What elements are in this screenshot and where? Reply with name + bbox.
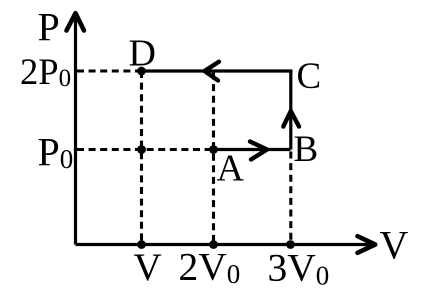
svg-text:2V0: 2V0 [179, 245, 241, 290]
svg-text:3V0: 3V0 [268, 246, 330, 291]
dashed line 2V0 vertical [212, 73, 215, 244]
process line C to D [142, 69, 293, 72]
arrow on CD pointing left [205, 62, 220, 81]
arrow on BC pointing up [283, 111, 299, 127]
svg-text:C: C [297, 56, 322, 97]
svg-text:P: P [38, 5, 60, 50]
tick dot 2V0 [209, 240, 218, 249]
arrow on AB pointing right [250, 142, 267, 160]
dashed line 2P0 to D [77, 69, 142, 72]
node V0,P0 [137, 145, 146, 154]
svg-text:P0: P0 [38, 130, 74, 175]
svg-text:V: V [134, 246, 162, 289]
y-axis P [67, 13, 85, 244]
svg-text:V: V [380, 223, 409, 268]
dashed line P0 to A [77, 148, 214, 151]
point A [209, 145, 218, 154]
tick dot 3V0 [286, 240, 295, 249]
process line B to C [289, 70, 292, 150]
dashed line 3V0 vertical below B [289, 152, 292, 244]
svg-text:A: A [217, 148, 245, 190]
point D [137, 67, 146, 76]
process line A to B [214, 148, 291, 151]
svg-text:B: B [294, 129, 319, 170]
dashed line V0 vertical [140, 71, 143, 243]
svg-text:D: D [129, 33, 156, 75]
svg-text:2P0: 2P0 [20, 51, 71, 92]
tick dot V0 [137, 240, 146, 249]
x-axis V [76, 236, 376, 253]
